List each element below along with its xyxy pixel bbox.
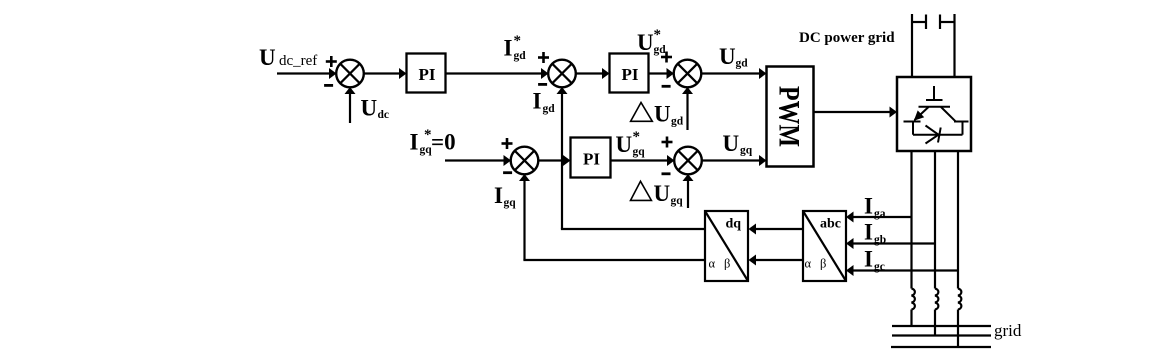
grid bus line 2 xyxy=(892,334,991,336)
label Udc_ref xyxy=(259,45,317,70)
phase c wire lower xyxy=(957,310,959,348)
svg-text:α: α xyxy=(805,257,812,271)
svg-text:β: β xyxy=(820,257,826,271)
label Udc xyxy=(361,96,390,122)
svg-text:I: I xyxy=(494,183,503,208)
PI block PI1 xyxy=(407,54,446,93)
svg-text:I: I xyxy=(864,247,873,272)
wire delta-Ugq input into S5 xyxy=(687,180,689,208)
svg-text:U: U xyxy=(361,96,378,121)
svg-text:gd: gd xyxy=(671,116,684,128)
svg-text:gd: gd xyxy=(514,50,527,62)
wire S2 to PI2 xyxy=(576,72,604,74)
svg-text:gq: gq xyxy=(633,146,646,158)
minus sign at S2 xyxy=(538,83,547,86)
wire S4 to PI3 xyxy=(538,159,564,161)
wire current tap Igb xyxy=(853,242,936,244)
svg-text:U: U xyxy=(654,102,671,127)
label Igd xyxy=(533,89,556,115)
svg-text:I: I xyxy=(864,194,873,219)
svg-text:gd: gd xyxy=(736,58,749,70)
svg-text:α: α xyxy=(709,257,716,271)
phase b wire lower xyxy=(934,310,936,336)
DC bus right plate xyxy=(939,15,941,30)
svg-text:*: * xyxy=(633,129,641,145)
grid bus line 3 xyxy=(891,346,991,348)
summing junction S2 xyxy=(548,60,576,88)
svg-text:U: U xyxy=(616,132,633,157)
label Igq_ref = 0 xyxy=(410,127,456,156)
inductor Lc xyxy=(958,289,961,310)
plus sign at S4 xyxy=(502,138,513,149)
DC bus left plate xyxy=(925,15,927,30)
svg-text:U: U xyxy=(637,30,654,55)
label Igq xyxy=(494,183,516,209)
wire current tap Igc xyxy=(853,269,959,271)
svg-text:PWM: PWM xyxy=(773,86,806,147)
label Ugd xyxy=(719,44,748,70)
wire S3 to PWM xyxy=(701,72,760,74)
wire Igq_ref to summer S4 xyxy=(445,159,505,161)
wire dq to Igq feedback xyxy=(523,259,705,261)
label Ugq_star xyxy=(616,129,646,158)
svg-text:U: U xyxy=(654,181,671,206)
DC bus left stub xyxy=(912,21,926,23)
minus sign at S3 xyxy=(662,85,671,88)
svg-text:=0: =0 xyxy=(431,130,456,155)
svg-text:PI: PI xyxy=(419,65,436,84)
svg-text:I: I xyxy=(533,89,542,114)
svg-text:dc: dc xyxy=(378,109,390,121)
svg-text:DC power grid: DC power grid xyxy=(799,30,895,46)
svg-text:I: I xyxy=(504,35,513,60)
svg-text:I: I xyxy=(864,220,873,245)
DC bus right rail xyxy=(953,14,955,77)
svg-text:gd: gd xyxy=(543,103,556,115)
summing junction S4 xyxy=(511,147,539,175)
svg-text:U: U xyxy=(719,44,736,69)
label Igb xyxy=(864,220,886,247)
converter box xyxy=(897,77,971,151)
inductor Lb xyxy=(935,289,938,310)
phase b wire xyxy=(934,151,936,289)
plus sign at S5 xyxy=(662,137,673,148)
IGBT symbol inside converter xyxy=(904,86,969,144)
svg-text:gc: gc xyxy=(874,261,885,273)
PI block PI2 xyxy=(610,54,649,93)
wire delta-Ugd input into S3 xyxy=(686,93,688,130)
svg-text:PI: PI xyxy=(583,150,600,169)
wire dq to Igd feedback xyxy=(561,228,705,230)
phase c wire xyxy=(957,151,959,289)
minus sign at S5 xyxy=(662,172,671,175)
summing junction S3 xyxy=(674,60,702,88)
plus sign at S2 xyxy=(538,52,549,63)
inductor La xyxy=(912,289,915,310)
plus sign at S3 xyxy=(661,52,672,63)
DC bus left rail xyxy=(911,14,913,77)
svg-text:ga: ga xyxy=(874,208,886,220)
svg-text:dq: dq xyxy=(726,217,742,232)
wire abc to dq upper xyxy=(755,228,803,230)
PI block PI3 xyxy=(571,138,611,178)
label Iga xyxy=(864,194,886,221)
summing junction S5 xyxy=(674,147,702,175)
svg-text:gb: gb xyxy=(874,234,886,246)
wire PWM to converter xyxy=(814,111,891,113)
wire Udc_ref to summer S1 xyxy=(277,72,330,74)
dq/alpha-beta block xyxy=(705,211,748,281)
svg-text:I: I xyxy=(410,130,419,155)
PWM block xyxy=(767,67,814,167)
svg-text:β: β xyxy=(724,257,730,271)
label delta Ugq xyxy=(631,181,684,207)
wire S1 to PI1 xyxy=(364,72,401,74)
label Ugq xyxy=(723,131,753,157)
wire Igd feedback vertical into S2 xyxy=(561,93,563,229)
wire abc to dq lower xyxy=(755,259,803,261)
abc/alpha-beta block xyxy=(803,211,846,281)
svg-text:*: * xyxy=(654,27,662,43)
diode D1 xyxy=(926,126,939,135)
svg-text:gd: gd xyxy=(654,44,667,56)
wire PI1 to summer S2 xyxy=(446,72,543,74)
svg-text:gq: gq xyxy=(671,195,684,207)
wire S5 to PWM xyxy=(702,159,761,161)
svg-text:PI: PI xyxy=(622,65,639,84)
svg-text:dc_ref: dc_ref xyxy=(279,53,317,69)
DC bus right stub xyxy=(940,21,955,23)
grid bus line 1 xyxy=(892,325,991,327)
svg-text:U: U xyxy=(723,131,740,156)
svg-text:*: * xyxy=(514,33,522,49)
wire Udc input xyxy=(349,93,351,123)
phase a wire xyxy=(910,151,912,289)
svg-text:abc: abc xyxy=(820,217,841,232)
minus sign at S4 xyxy=(503,171,512,174)
label Ugd_star xyxy=(637,27,666,56)
wire Igq feedback vertical into S4 xyxy=(523,180,525,260)
plus sign at S1 xyxy=(326,56,337,67)
wire PI3 to summer S5 xyxy=(611,159,669,161)
phase a wire lower xyxy=(910,310,912,327)
label Igd_ref xyxy=(504,33,527,62)
label delta Ugd xyxy=(631,102,684,128)
wire current tap Iga xyxy=(853,216,912,218)
label Igc xyxy=(864,247,885,274)
svg-text:U: U xyxy=(259,45,276,70)
svg-text:gq: gq xyxy=(504,197,517,209)
svg-text:grid: grid xyxy=(994,321,1022,340)
summing junction S1 xyxy=(336,60,364,88)
svg-text:gq: gq xyxy=(740,145,753,157)
wire PI2 to summer S3 xyxy=(649,72,668,74)
minus sign at S1 xyxy=(324,84,333,87)
